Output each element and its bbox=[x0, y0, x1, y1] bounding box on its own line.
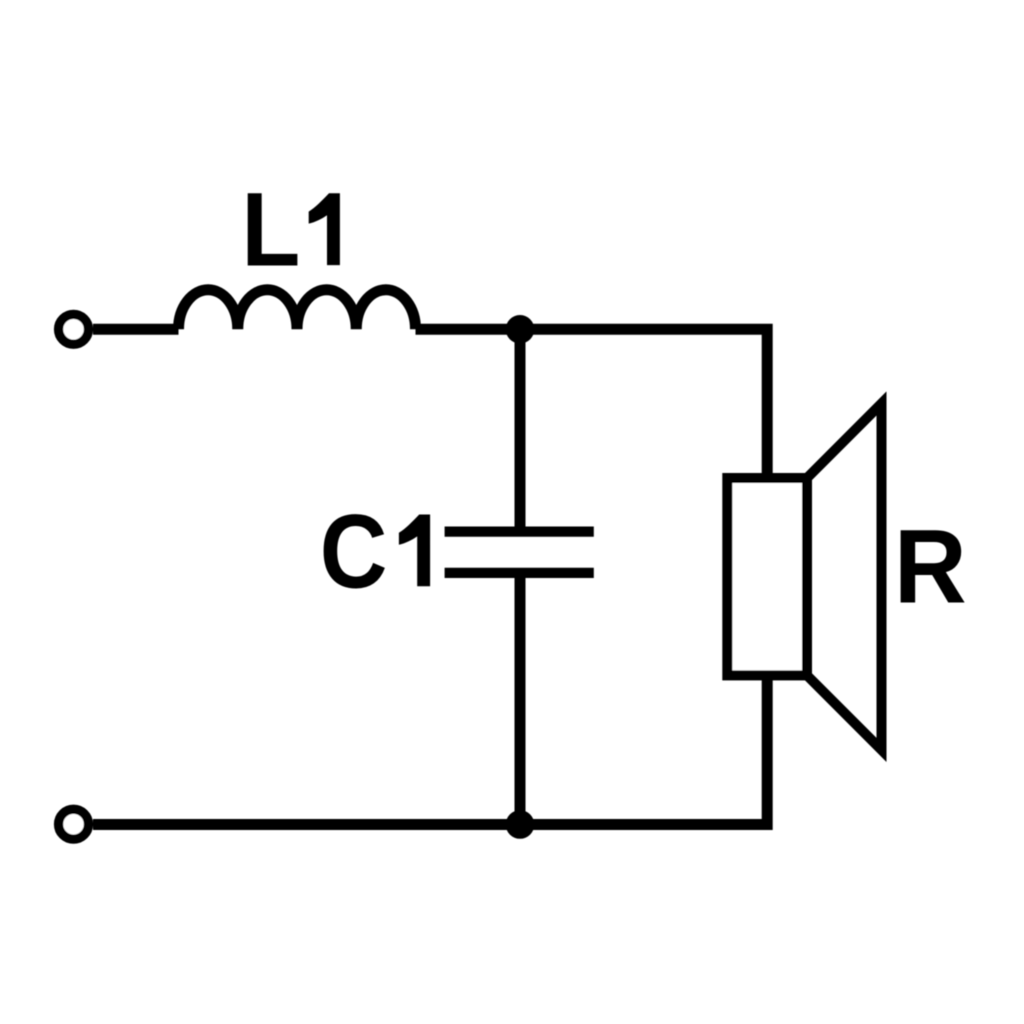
terminal: bottom input bbox=[59, 809, 89, 839]
capacitor C1 bbox=[445, 532, 594, 573]
terminal: top input bbox=[59, 314, 89, 344]
svg-text:L: L bbox=[241, 172, 300, 288]
wire from top junction to speaker branch corner and down bbox=[520, 329, 767, 478]
wire from input terminal to inductor bbox=[93, 324, 179, 335]
wire from bottom junction to input terminal bbox=[93, 819, 520, 830]
wire from inductor to top junction bbox=[416, 324, 521, 335]
label L1 bbox=[241, 172, 340, 288]
speaker box R bbox=[727, 478, 807, 675]
svg-text:C: C bbox=[320, 494, 388, 611]
speaker horn bbox=[807, 404, 882, 750]
inductor L1 bbox=[179, 290, 416, 330]
wire from speaker down to bottom junction bbox=[520, 675, 767, 824]
svg-text:R: R bbox=[894, 508, 967, 625]
node: bottom junction bbox=[506, 810, 535, 839]
wire from top junction down to capacitor bbox=[515, 329, 526, 531]
node: top junction bbox=[506, 315, 535, 344]
label C1 bbox=[320, 494, 430, 611]
wire from capacitor down to bottom junction bbox=[515, 573, 526, 825]
